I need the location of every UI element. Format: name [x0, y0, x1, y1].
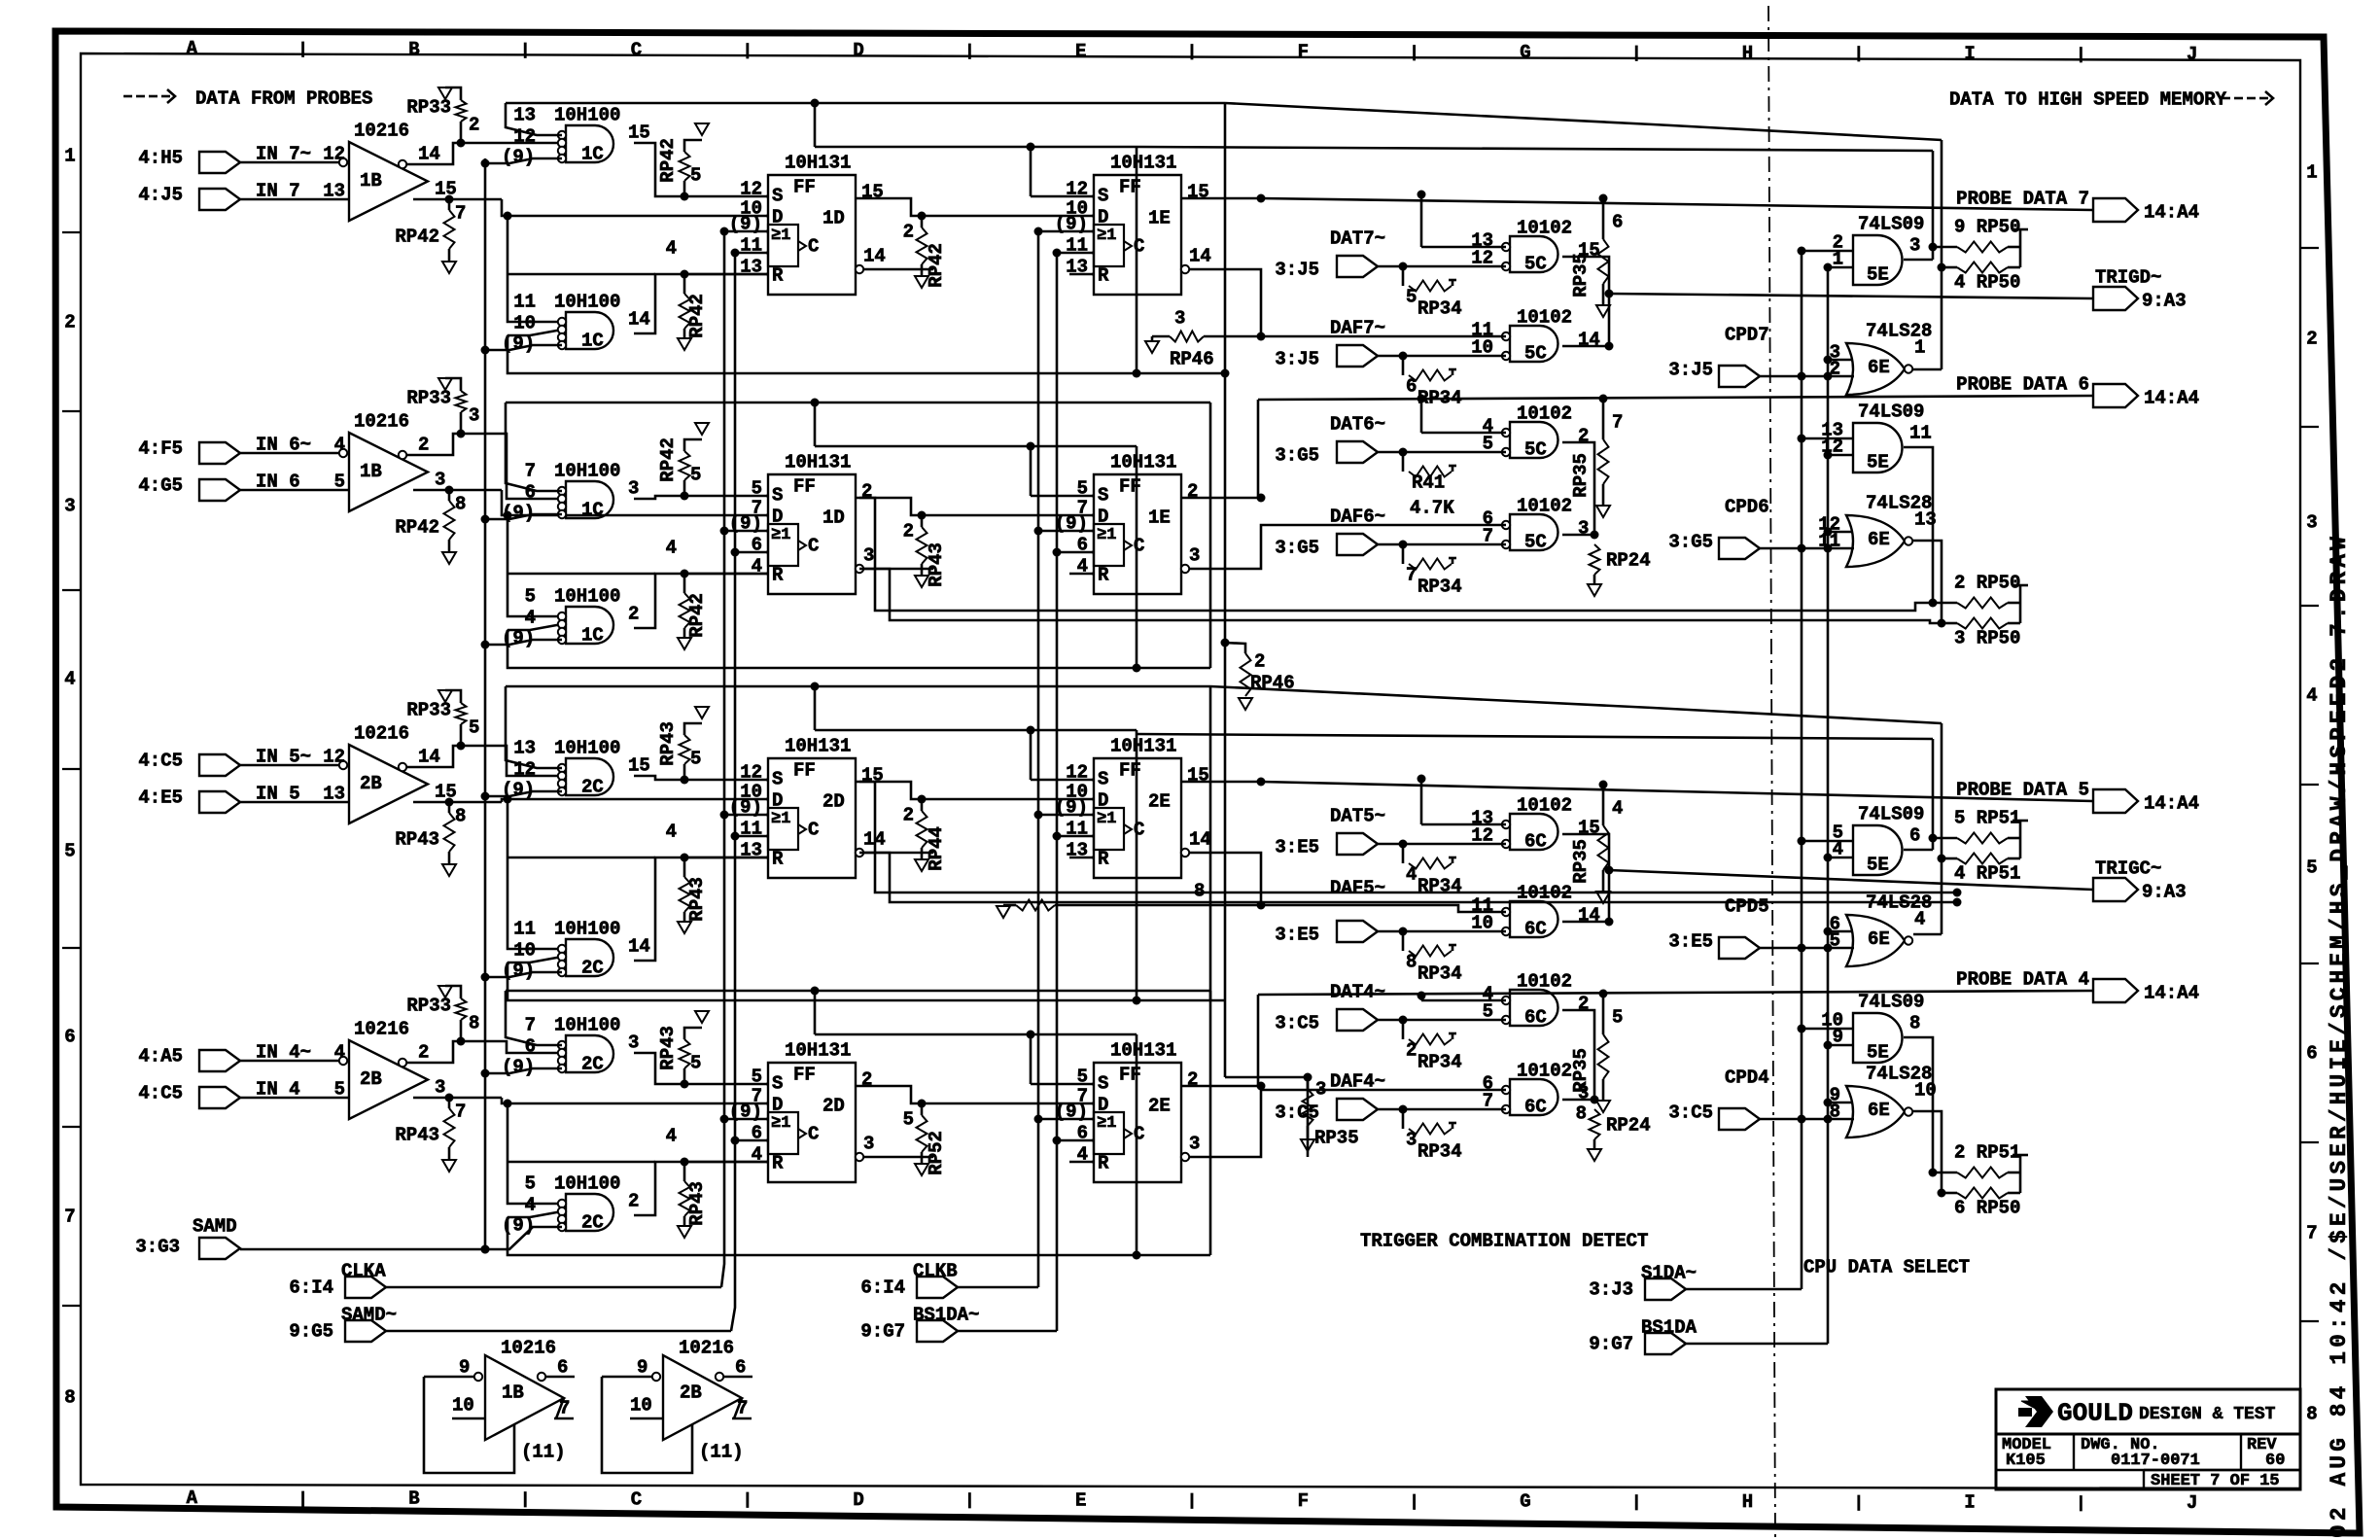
svg-text:I: I: [1964, 44, 1975, 65]
svg-text:≥1: ≥1: [1097, 526, 1116, 544]
svg-text:|: |: [743, 1491, 752, 1510]
svg-text:10H131: 10H131: [1110, 1040, 1176, 1062]
svg-text:4:E5: 4:E5: [138, 787, 183, 809]
svg-text:G: G: [1520, 1491, 1530, 1513]
svg-text:R: R: [772, 265, 784, 287]
svg-text:10H100: 10H100: [554, 105, 620, 126]
svg-text:14: 14: [628, 936, 650, 958]
svg-text:F: F: [1298, 42, 1309, 63]
svg-text:9: 9: [637, 1357, 647, 1379]
svg-text:14:A4: 14:A4: [2144, 202, 2199, 224]
svg-text:6: 6: [525, 482, 536, 504]
svg-text:FF: FF: [1119, 760, 1141, 782]
svg-text:8: 8: [64, 1387, 75, 1409]
svg-text:1B: 1B: [360, 461, 382, 482]
svg-text:12: 12: [323, 144, 345, 165]
svg-text:10102: 10102: [1517, 795, 1572, 817]
svg-text:2: 2: [628, 604, 639, 625]
svg-text:4 RP51: 4 RP51: [1954, 863, 2020, 885]
svg-text:3:E5: 3:E5: [1668, 931, 1713, 953]
svg-text:3:J3: 3:J3: [1589, 1279, 1633, 1301]
svg-text:≥1: ≥1: [771, 526, 790, 544]
svg-text:A: A: [187, 38, 198, 59]
svg-text:≥1: ≥1: [771, 1114, 790, 1133]
svg-text:(11): (11): [521, 1442, 566, 1463]
svg-text:6: 6: [1406, 376, 1417, 398]
svg-text:13: 13: [323, 784, 345, 805]
svg-text:1: 1: [64, 146, 75, 167]
svg-text:3:G5: 3:G5: [1275, 538, 1319, 559]
svg-text:RP35: RP35: [1570, 839, 1592, 884]
svg-text:R41: R41: [1412, 472, 1445, 494]
svg-text:RP42: RP42: [686, 294, 708, 338]
svg-text:10216: 10216: [354, 723, 409, 745]
svg-text:RP42: RP42: [686, 593, 708, 638]
svg-text:14:A4: 14:A4: [2144, 793, 2199, 815]
svg-text:6C: 6C: [1524, 919, 1547, 940]
svg-text:RP42: RP42: [926, 243, 947, 288]
svg-text:≥1: ≥1: [771, 227, 790, 245]
svg-text:3: 3: [435, 1077, 445, 1099]
svg-text:5C: 5C: [1524, 439, 1547, 461]
svg-text:8: 8: [1406, 952, 1417, 973]
svg-text:4: 4: [334, 435, 345, 456]
svg-text:15: 15: [1578, 818, 1600, 839]
svg-text:FF: FF: [1119, 476, 1141, 498]
svg-text:10216: 10216: [679, 1338, 734, 1359]
svg-text:S: S: [1098, 1073, 1108, 1095]
svg-text:10102: 10102: [1517, 403, 1572, 425]
svg-text:IN 4: IN 4: [256, 1079, 300, 1101]
svg-text:D: D: [772, 507, 783, 528]
svg-text:PROBE DATA 7: PROBE DATA 7: [1956, 189, 2089, 210]
svg-text:2C: 2C: [581, 1212, 604, 1234]
svg-text:4: 4: [666, 238, 677, 260]
svg-text:5: 5: [903, 1109, 914, 1131]
svg-text:3: 3: [863, 545, 874, 567]
svg-text:PROBE DATA 5: PROBE DATA 5: [1956, 780, 2089, 801]
svg-text:RP44: RP44: [926, 826, 947, 871]
svg-text:RP43: RP43: [686, 1181, 708, 1226]
svg-text:2: 2: [1578, 426, 1589, 447]
svg-text:7: 7: [525, 461, 536, 482]
svg-text:5: 5: [334, 472, 345, 493]
svg-text:10H131: 10H131: [785, 452, 851, 473]
svg-text:5: 5: [334, 1079, 345, 1101]
svg-text:10216: 10216: [501, 1338, 556, 1359]
svg-text:2B: 2B: [360, 1068, 382, 1090]
svg-text:S: S: [772, 186, 783, 207]
svg-text:1E: 1E: [1148, 507, 1171, 529]
svg-text:3:E5: 3:E5: [1275, 925, 1319, 946]
svg-text:2E: 2E: [1148, 791, 1171, 813]
svg-text:8: 8: [455, 806, 466, 827]
svg-text:|: |: [1187, 44, 1197, 62]
svg-text:10: 10: [513, 313, 536, 334]
svg-text:10102: 10102: [1517, 307, 1572, 329]
svg-text:3: 3: [1909, 235, 1920, 257]
svg-text:13: 13: [323, 181, 345, 202]
svg-text:3:G3: 3:G3: [135, 1237, 180, 1258]
svg-text:5E: 5E: [1867, 264, 1889, 286]
svg-text:6C: 6C: [1524, 1007, 1547, 1029]
svg-text:2: 2: [1406, 1040, 1417, 1062]
svg-text:10H100: 10H100: [554, 1173, 620, 1195]
svg-text:RP34: RP34: [1417, 1141, 1462, 1163]
svg-text:2: 2: [418, 1042, 429, 1064]
svg-text:5: 5: [752, 478, 762, 500]
svg-text:10102: 10102: [1517, 1061, 1572, 1082]
svg-text:(9): (9): [502, 333, 535, 355]
svg-text:D: D: [1098, 1095, 1108, 1116]
svg-text:9: 9: [459, 1357, 470, 1379]
svg-text:2 RP51: 2 RP51: [1954, 1142, 2020, 1164]
svg-text:8: 8: [2306, 1404, 2317, 1425]
svg-text:4: 4: [334, 1042, 345, 1064]
svg-text:15: 15: [628, 755, 650, 777]
svg-text:RP34: RP34: [1417, 1052, 1462, 1073]
svg-text:R: R: [1098, 1153, 1109, 1174]
svg-text:6C: 6C: [1524, 1097, 1547, 1118]
svg-text:2: 2: [469, 115, 479, 136]
svg-text:FF: FF: [793, 760, 816, 782]
svg-text:2E: 2E: [1148, 1096, 1171, 1117]
svg-text:|: |: [1187, 1492, 1197, 1511]
svg-text:RP42: RP42: [395, 517, 439, 539]
svg-text:FF: FF: [1119, 1065, 1141, 1086]
svg-text:SAMD~: SAMD~: [341, 1305, 397, 1326]
svg-text:PROBE DATA 6: PROBE DATA 6: [1956, 374, 2089, 396]
svg-text:2: 2: [1187, 1069, 1198, 1091]
svg-text:S: S: [772, 1073, 783, 1095]
svg-text:15: 15: [1187, 182, 1209, 203]
svg-text:RP43: RP43: [657, 721, 679, 766]
svg-text:10H100: 10H100: [554, 292, 620, 313]
svg-text:5: 5: [469, 717, 479, 739]
svg-text:R: R: [772, 1153, 784, 1174]
svg-text:4 RP50: 4 RP50: [1954, 272, 2020, 294]
svg-text:FF: FF: [793, 1065, 816, 1086]
svg-text:3: 3: [1406, 1130, 1417, 1151]
svg-text:RP43: RP43: [395, 1125, 439, 1146]
svg-text:6 RP50: 6 RP50: [1954, 1198, 2020, 1219]
svg-text:CPD7: CPD7: [1725, 325, 1769, 346]
svg-text:2: 2: [861, 1069, 872, 1091]
svg-text:FF: FF: [793, 476, 816, 498]
svg-text:5: 5: [690, 465, 701, 486]
svg-text:12: 12: [323, 747, 345, 768]
svg-text:|: |: [1631, 45, 1641, 63]
svg-text:5: 5: [690, 1053, 701, 1074]
svg-text:2: 2: [903, 521, 914, 542]
svg-text:8: 8: [1909, 1013, 1920, 1034]
svg-text:7: 7: [64, 1207, 75, 1228]
svg-text:8: 8: [469, 1013, 479, 1034]
svg-text:11: 11: [1909, 423, 1932, 444]
svg-text:15: 15: [861, 182, 884, 203]
svg-text:5: 5: [690, 165, 701, 187]
svg-text:5: 5: [2306, 857, 2317, 879]
svg-text:15: 15: [435, 782, 457, 803]
svg-text:D: D: [772, 790, 783, 812]
svg-text:14: 14: [1578, 330, 1600, 351]
svg-text:3: 3: [1189, 1134, 1200, 1155]
svg-text:7: 7: [455, 203, 466, 225]
svg-text:CLKA: CLKA: [341, 1261, 386, 1282]
svg-text:4: 4: [666, 1126, 677, 1147]
svg-text:3: 3: [64, 496, 75, 517]
svg-text:74LS09: 74LS09: [1858, 992, 1924, 1013]
svg-text:6: 6: [525, 1036, 536, 1058]
svg-text:SAMD: SAMD: [192, 1216, 237, 1238]
svg-text:8: 8: [455, 494, 466, 515]
svg-text:C: C: [631, 40, 642, 61]
svg-text:R: R: [1098, 849, 1109, 870]
svg-text:7: 7: [1406, 565, 1417, 586]
svg-text:14: 14: [1578, 905, 1600, 927]
svg-text:D: D: [853, 1489, 863, 1511]
svg-text:4: 4: [525, 608, 536, 629]
svg-text:9 RP50: 9 RP50: [1954, 217, 2020, 238]
svg-text:5: 5: [752, 1067, 762, 1088]
svg-text:3: 3: [435, 470, 445, 491]
svg-text:|: |: [297, 1490, 307, 1509]
svg-text:3:C5: 3:C5: [1275, 1013, 1319, 1034]
svg-text:7: 7: [2306, 1223, 2317, 1244]
svg-text:RP42: RP42: [395, 227, 439, 248]
svg-text:6:I4: 6:I4: [289, 1277, 333, 1299]
svg-text:14: 14: [1189, 829, 1211, 851]
svg-text:S: S: [1098, 186, 1108, 207]
svg-text:6E: 6E: [1868, 1100, 1890, 1121]
svg-text:4:C5: 4:C5: [138, 1083, 183, 1104]
svg-text:2B: 2B: [680, 1382, 702, 1404]
svg-text:C: C: [808, 536, 819, 557]
svg-text:4: 4: [1914, 909, 1925, 930]
svg-text:3: 3: [1578, 518, 1589, 540]
svg-text:5E: 5E: [1867, 855, 1889, 876]
svg-text:4: 4: [64, 669, 75, 690]
svg-text:2: 2: [903, 222, 914, 243]
svg-text:RP33: RP33: [406, 700, 451, 721]
svg-text:RP24: RP24: [1606, 550, 1651, 572]
svg-text:|: |: [520, 42, 530, 60]
svg-text:1D: 1D: [822, 507, 845, 529]
svg-text:2: 2: [1254, 651, 1265, 673]
svg-text:2B: 2B: [360, 773, 382, 794]
svg-text:S1DA~: S1DA~: [1641, 1263, 1697, 1284]
svg-text:RP35: RP35: [1570, 253, 1592, 297]
svg-text:7: 7: [559, 1398, 570, 1419]
svg-text:RP46: RP46: [1170, 349, 1214, 370]
svg-text:10H131: 10H131: [785, 736, 851, 757]
svg-text:10102: 10102: [1517, 971, 1572, 993]
svg-text:6E: 6E: [1868, 529, 1890, 550]
svg-text:8: 8: [1576, 1103, 1587, 1125]
svg-text:13: 13: [513, 105, 536, 126]
svg-text:74LS09: 74LS09: [1858, 804, 1924, 825]
svg-text:10H131: 10H131: [1110, 452, 1176, 473]
svg-text:RP42: RP42: [657, 138, 679, 183]
svg-text:GOULD: GOULD: [2057, 1399, 2133, 1428]
svg-text:14: 14: [1189, 246, 1211, 267]
svg-text:4:A5: 4:A5: [138, 1046, 183, 1067]
svg-text:9:G7: 9:G7: [1589, 1334, 1633, 1355]
svg-text:5: 5: [1406, 287, 1417, 308]
svg-text:5: 5: [1612, 1007, 1623, 1029]
svg-text:12: 12: [740, 179, 762, 200]
svg-text:7: 7: [455, 1102, 466, 1123]
svg-text:|: |: [964, 1492, 974, 1511]
svg-text:RP43: RP43: [395, 829, 439, 851]
svg-text:D: D: [1098, 790, 1108, 812]
svg-text:C: C: [631, 1488, 642, 1510]
svg-text:3: 3: [2306, 512, 2317, 534]
svg-text:4:G5: 4:G5: [138, 475, 183, 497]
svg-text:DESIGN & TEST: DESIGN & TEST: [2139, 1405, 2276, 1424]
svg-text:|: |: [520, 1491, 530, 1510]
svg-text:IN 6: IN 6: [256, 472, 300, 493]
svg-text:3:J5: 3:J5: [1668, 360, 1713, 381]
svg-text:3: 3: [628, 1032, 639, 1054]
svg-text:74LS09: 74LS09: [1858, 214, 1924, 235]
svg-text:3:G5: 3:G5: [1275, 445, 1319, 467]
svg-text:F: F: [1298, 1490, 1309, 1512]
svg-text:(9): (9): [502, 1215, 535, 1237]
svg-text:4:C5: 4:C5: [138, 751, 183, 772]
svg-text:3:G5: 3:G5: [1668, 532, 1713, 553]
svg-text:1E: 1E: [1148, 208, 1171, 229]
svg-text:RP35: RP35: [1570, 1048, 1592, 1093]
svg-text:10H131: 10H131: [1110, 153, 1176, 174]
svg-text:DAT7~: DAT7~: [1330, 228, 1385, 250]
svg-text:H: H: [1742, 43, 1753, 64]
svg-text:3:J5: 3:J5: [1275, 260, 1319, 281]
svg-text:R: R: [1098, 565, 1109, 586]
svg-text:6: 6: [64, 1027, 75, 1048]
svg-text:10H100: 10H100: [554, 738, 620, 759]
svg-text:14: 14: [628, 309, 650, 331]
svg-text:3 RP50: 3 RP50: [1954, 628, 2020, 649]
svg-text:5 RP51: 5 RP51: [1954, 808, 2020, 829]
svg-text:0117-0071: 0117-0071: [2111, 1452, 2200, 1470]
svg-text:≥1: ≥1: [1097, 810, 1116, 828]
svg-text:2: 2: [903, 805, 914, 826]
svg-text:3:E5: 3:E5: [1275, 837, 1319, 858]
svg-text:H: H: [1742, 1491, 1753, 1513]
svg-text:1: 1: [1914, 337, 1925, 359]
svg-text:5C: 5C: [1524, 254, 1547, 275]
svg-text:CLKB: CLKB: [913, 1261, 958, 1282]
svg-text:(9): (9): [502, 961, 535, 982]
svg-text:2C: 2C: [581, 958, 604, 979]
svg-text:15: 15: [435, 179, 457, 200]
svg-text:SHEET 7 OF 15: SHEET 7 OF 15: [2151, 1472, 2280, 1490]
svg-text:5: 5: [690, 749, 701, 770]
svg-text:RP34: RP34: [1417, 577, 1462, 598]
svg-text:2D: 2D: [822, 791, 845, 813]
svg-text:|: |: [297, 41, 307, 59]
svg-text:S: S: [1098, 485, 1108, 507]
svg-text:RP35: RP35: [1314, 1128, 1359, 1149]
svg-text:RP34: RP34: [1417, 298, 1462, 320]
svg-text:15: 15: [1187, 765, 1209, 787]
svg-text:1B: 1B: [502, 1382, 524, 1404]
svg-text:10: 10: [513, 940, 536, 962]
svg-text:CPD4: CPD4: [1725, 1067, 1769, 1089]
svg-text:DATA FROM PROBES: DATA FROM PROBES: [195, 88, 372, 110]
svg-text:10102: 10102: [1517, 218, 1572, 239]
svg-text:RP43: RP43: [926, 542, 947, 587]
svg-text:|: |: [2076, 1495, 2085, 1514]
svg-text:3: 3: [1174, 308, 1185, 330]
svg-text:|: |: [2076, 46, 2085, 64]
svg-text:R: R: [1098, 265, 1109, 287]
svg-text:14: 14: [418, 144, 440, 165]
svg-text:FF: FF: [793, 177, 816, 198]
svg-text:FF: FF: [1119, 177, 1141, 198]
svg-text:G: G: [1520, 42, 1530, 63]
svg-text:9:G7: 9:G7: [860, 1321, 905, 1343]
svg-text:6E: 6E: [1868, 928, 1890, 950]
svg-text:5: 5: [525, 586, 536, 608]
svg-text:D: D: [1098, 507, 1108, 528]
svg-text:IN 6~: IN 6~: [256, 435, 311, 456]
svg-text:I: I: [1964, 1492, 1975, 1514]
svg-text:6:I4: 6:I4: [860, 1277, 905, 1299]
svg-text:D: D: [772, 207, 783, 228]
svg-text:10102: 10102: [1517, 496, 1572, 517]
svg-text:(9): (9): [502, 147, 535, 168]
svg-text:≥1: ≥1: [771, 810, 790, 828]
svg-text:4: 4: [1406, 864, 1417, 886]
svg-text:10216: 10216: [354, 1019, 409, 1040]
svg-text:74LS09: 74LS09: [1858, 402, 1924, 423]
svg-text:RP24: RP24: [1606, 1115, 1651, 1137]
svg-text:5C: 5C: [1524, 532, 1547, 553]
svg-text:D: D: [772, 1095, 783, 1116]
svg-text:5E: 5E: [1867, 1042, 1889, 1064]
svg-text:4: 4: [2306, 685, 2317, 707]
svg-text:5E: 5E: [1867, 452, 1889, 473]
svg-text:1C: 1C: [581, 331, 604, 352]
svg-text:RP43: RP43: [657, 1026, 679, 1070]
svg-text:(9): (9): [502, 628, 535, 649]
svg-text:2 RP50: 2 RP50: [1954, 573, 2020, 594]
svg-text:1B: 1B: [360, 170, 382, 192]
svg-text:2: 2: [64, 312, 75, 333]
svg-text:2: 2: [1578, 994, 1589, 1015]
svg-text:(9): (9): [502, 1057, 535, 1078]
svg-text:6: 6: [1612, 212, 1623, 233]
svg-text:15: 15: [861, 765, 884, 787]
svg-text:7: 7: [525, 1015, 536, 1036]
svg-text:10: 10: [630, 1395, 652, 1417]
svg-text:C: C: [808, 820, 819, 841]
svg-text:B: B: [408, 1488, 419, 1510]
svg-text:J: J: [2187, 44, 2197, 65]
svg-text:4: 4: [666, 538, 677, 559]
svg-text:2: 2: [628, 1191, 639, 1212]
svg-text:2C: 2C: [581, 1054, 604, 1075]
svg-text:1D: 1D: [822, 208, 845, 229]
svg-text:|: |: [1409, 44, 1418, 62]
svg-text:60: 60: [2265, 1452, 2285, 1470]
svg-text:3: 3: [1315, 1079, 1326, 1101]
svg-text:2: 2: [861, 481, 872, 503]
svg-text:4:F5: 4:F5: [138, 438, 183, 460]
svg-text:10H100: 10H100: [554, 1015, 620, 1036]
